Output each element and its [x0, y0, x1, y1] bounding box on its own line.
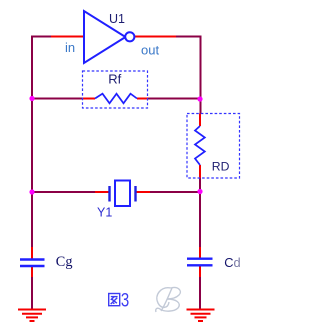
- svg-text:Rf: Rf: [108, 71, 121, 86]
- wire: right rail top vertical: [200, 36, 202, 114]
- svg-text:in: in: [65, 40, 75, 55]
- wire: Rf right lead red: [137, 98, 148, 100]
- wire: Y1 row dark right: [150, 191, 201, 193]
- wire: Cd top lead red: [199, 247, 201, 259]
- capacitor Cg top plate: [20, 258, 45, 260]
- wire: input lead red: [51, 36, 84, 38]
- wire: right rail bottom vertical: [199, 277, 201, 309]
- wire: Cg bottom lead red: [31, 266, 33, 277]
- wire: Rf left lead red: [83, 98, 95, 100]
- resistor Rf dashed selection box: [83, 71, 148, 108]
- node junction dot left lower: [29, 189, 34, 194]
- wire: RD top lead red: [199, 114, 201, 127]
- svg-text:out: out: [141, 43, 159, 58]
- svg-text:RD: RD: [212, 160, 230, 174]
- svg-text:3: 3: [121, 290, 129, 311]
- crystal Y1 body: [115, 181, 130, 207]
- svg-text:Cg: Cg: [56, 254, 73, 270]
- crystal Y1 right plate: [134, 186, 136, 202]
- resistor RD zigzag: [195, 126, 205, 165]
- capacitor Cd top plate: [187, 258, 213, 260]
- node junction dot right upper: [197, 96, 202, 101]
- wire: Cd bottom lead red: [199, 265, 201, 277]
- wire: output horizontal dark part: [176, 36, 201, 38]
- wire: top input horizontal dark part: [31, 36, 51, 38]
- svg-text:U1: U1: [109, 12, 125, 26]
- wire: left rail lower segment: [31, 277, 33, 309]
- ground left: [18, 310, 46, 322]
- node junction dot right lower: [197, 189, 202, 194]
- svg-text:Cd: Cd: [224, 255, 240, 270]
- svg-text:Y1: Y1: [97, 206, 112, 220]
- op-amp U1 output bubble: [125, 32, 134, 41]
- wire: Y1 row dark left: [32, 191, 95, 193]
- wire: RD bottom lead red: [199, 165, 201, 178]
- op-amp U1 inverter triangle: [84, 11, 126, 63]
- wire: output lead red: [135, 36, 177, 38]
- wire: Rf row dark left: [32, 98, 83, 100]
- wire: left rail vertical: [31, 37, 33, 248]
- capacitor Cg bottom plate: [20, 265, 45, 267]
- ground right: [187, 310, 215, 322]
- wire: right rail middle vertical: [199, 178, 201, 247]
- resistor Rf zigzag: [95, 94, 137, 104]
- crystal Y1 left plate: [108, 186, 110, 202]
- wire: Cg top lead red: [31, 247, 33, 260]
- wire: Rf row dark right: [148, 98, 201, 100]
- caption 图3 : hand-drawn 图 glyph: [109, 294, 120, 306]
- capacitor Cd bottom plate: [187, 264, 213, 266]
- watermark script B: [156, 288, 181, 312]
- resistor RD dashed selection box: [187, 114, 240, 179]
- node junction dot left upper: [29, 96, 34, 101]
- wire: Y1 left lead red: [95, 191, 109, 193]
- wire: Y1 right lead red: [137, 191, 151, 193]
